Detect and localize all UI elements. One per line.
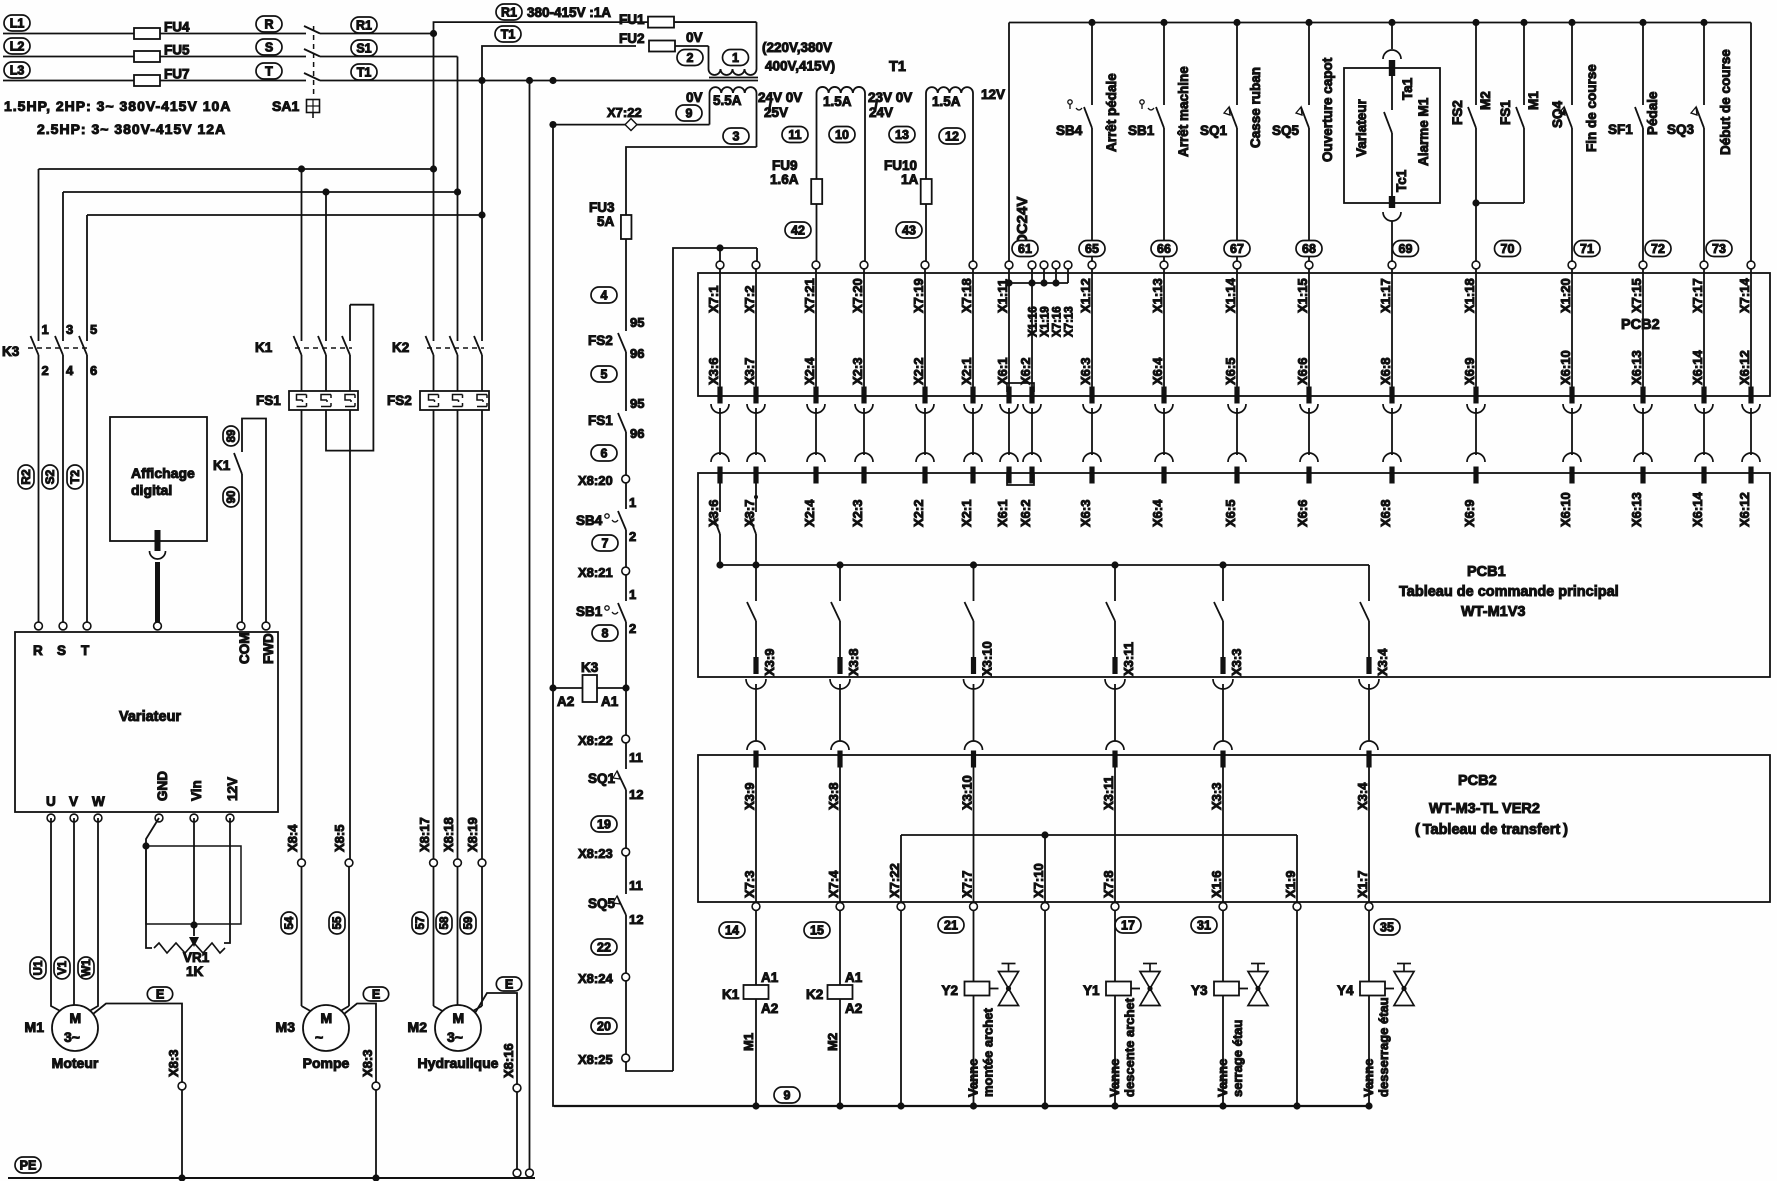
svg-text:Arrêt pédale: Arrêt pédale [1104, 73, 1119, 152]
svg-text:Vanne: Vanne [1215, 1059, 1230, 1097]
svg-text:desserrage étau: desserrage étau [1376, 997, 1391, 1097]
svg-text:X7:4: X7:4 [826, 870, 841, 898]
svg-text:X7:2: X7:2 [742, 286, 757, 313]
svg-text:X6:14: X6:14 [1690, 492, 1705, 527]
svg-text:M: M [70, 1010, 82, 1026]
svg-text:COM: COM [237, 633, 252, 665]
svg-text:Variateur: Variateur [1354, 98, 1369, 157]
svg-text:R: R [264, 17, 273, 31]
svg-text:12V: 12V [981, 87, 1005, 102]
svg-text:X3:7: X3:7 [742, 500, 757, 527]
svg-text:22: 22 [597, 940, 611, 954]
svg-text:FU2: FU2 [619, 31, 645, 46]
svg-text:X1:16: X1:16 [1028, 306, 1040, 337]
svg-text:58: 58 [439, 916, 451, 929]
svg-text:1.5A: 1.5A [823, 94, 852, 109]
svg-text:A1: A1 [601, 694, 619, 709]
svg-text:(220V,380V: (220V,380V [762, 40, 832, 55]
svg-text:X6:12: X6:12 [1737, 492, 1752, 527]
svg-text:V1: V1 [57, 960, 69, 975]
svg-text:FU1: FU1 [619, 12, 645, 27]
svg-text:R2: R2 [19, 469, 33, 485]
svg-text:11: 11 [788, 128, 801, 142]
svg-text:X7:21: X7:21 [802, 278, 817, 313]
svg-text:X8:22: X8:22 [578, 733, 613, 748]
svg-text:T1: T1 [889, 59, 906, 75]
svg-text:U: U [46, 794, 56, 809]
svg-text:X3:7: X3:7 [742, 358, 757, 385]
svg-text:SQ1: SQ1 [588, 771, 616, 786]
svg-text:X6:12: X6:12 [1737, 350, 1752, 385]
svg-text:FS2: FS2 [588, 333, 613, 348]
svg-text:Ouverture capot: Ouverture capot [1320, 57, 1335, 162]
svg-text:SB1: SB1 [576, 604, 603, 619]
svg-text:X2:3: X2:3 [850, 500, 865, 527]
svg-text:X7:7: X7:7 [960, 871, 975, 898]
svg-text:X1:15: X1:15 [1295, 278, 1310, 313]
svg-text:T: T [81, 643, 90, 658]
svg-text:K1: K1 [213, 458, 231, 473]
svg-text:T2: T2 [68, 470, 82, 484]
svg-text:X2:4: X2:4 [802, 499, 817, 527]
svg-text:E: E [156, 987, 164, 1001]
svg-text:PCB2: PCB2 [1458, 773, 1497, 789]
svg-text:2: 2 [629, 621, 636, 636]
svg-text:descente archet: descente archet [1122, 997, 1137, 1097]
svg-text:42: 42 [791, 223, 805, 237]
svg-text:X8:17: X8:17 [417, 817, 432, 852]
svg-text:FWD: FWD [261, 633, 276, 664]
svg-text:X7:18: X7:18 [959, 278, 974, 313]
svg-text:X2:2: X2:2 [911, 358, 926, 385]
svg-text:X7:10: X7:10 [1031, 863, 1046, 898]
svg-text:95: 95 [630, 315, 644, 330]
svg-text:X2:2: X2:2 [911, 500, 926, 527]
svg-text:X1:20: X1:20 [1558, 278, 1573, 313]
svg-text:X6:13: X6:13 [1629, 492, 1644, 527]
svg-text:15: 15 [810, 923, 824, 937]
svg-text:X3:11: X3:11 [1121, 642, 1136, 676]
svg-text:X6:4: X6:4 [1150, 357, 1165, 385]
svg-text:Y2: Y2 [942, 983, 959, 998]
svg-text:X7:1: X7:1 [706, 286, 721, 313]
svg-text:X2:4: X2:4 [802, 357, 817, 385]
svg-text:X7:8: X7:8 [1101, 871, 1116, 898]
svg-text:PCB1: PCB1 [1467, 564, 1506, 580]
svg-text:W: W [92, 794, 105, 809]
svg-text:X1:7: X1:7 [1355, 871, 1370, 898]
svg-text:X1:12: X1:12 [1078, 278, 1093, 313]
svg-text:WT-M3-TL VER2: WT-M3-TL VER2 [1429, 801, 1540, 817]
svg-text:X6:8: X6:8 [1378, 358, 1393, 385]
svg-text:X6:10: X6:10 [1558, 492, 1573, 527]
svg-text:95: 95 [630, 396, 644, 411]
svg-text:7: 7 [602, 536, 609, 550]
svg-text:72: 72 [1651, 242, 1665, 256]
svg-text:X2:1: X2:1 [959, 358, 974, 385]
svg-text:DC24V: DC24V [1014, 197, 1031, 245]
svg-text:Y1: Y1 [1083, 983, 1100, 998]
svg-text:1.5A: 1.5A [932, 94, 961, 109]
svg-text:70: 70 [1501, 242, 1515, 256]
svg-text:35: 35 [1380, 920, 1394, 934]
svg-text:T1: T1 [501, 27, 516, 41]
svg-text:X6:5: X6:5 [1223, 358, 1238, 385]
svg-text:X3:9: X3:9 [742, 783, 757, 810]
svg-text:R1: R1 [501, 5, 517, 19]
svg-text:M3: M3 [276, 1019, 296, 1035]
svg-text:M: M [321, 1010, 333, 1026]
svg-text:24V: 24V [869, 105, 893, 120]
svg-text:FS1: FS1 [1498, 100, 1513, 125]
svg-text:X6:14: X6:14 [1690, 350, 1705, 385]
svg-text:A1: A1 [761, 970, 779, 985]
svg-text:Arrêt machine: Arrêt machine [1176, 66, 1191, 157]
svg-text:400V,415V): 400V,415V) [765, 59, 835, 74]
svg-text:SQ1: SQ1 [1200, 123, 1228, 138]
svg-text:0V: 0V [686, 90, 703, 105]
svg-text:L2: L2 [10, 39, 25, 53]
svg-text:X7:22: X7:22 [887, 863, 902, 898]
svg-text:FU9: FU9 [772, 158, 798, 173]
svg-text:20: 20 [597, 1019, 611, 1033]
svg-text:PCB2: PCB2 [1621, 317, 1660, 333]
svg-text:X7:15: X7:15 [1629, 278, 1644, 313]
svg-text:Alarme M1: Alarme M1 [1416, 97, 1431, 166]
svg-text:FU3: FU3 [589, 200, 615, 215]
svg-text:FS1: FS1 [256, 393, 281, 408]
svg-text:55: 55 [332, 916, 344, 929]
svg-text:X8:16: X8:16 [501, 1043, 516, 1078]
svg-text:11: 11 [629, 878, 643, 893]
svg-text:X1:13: X1:13 [1150, 278, 1165, 313]
svg-text:FS2: FS2 [387, 393, 412, 408]
svg-text:X3:10: X3:10 [960, 775, 975, 810]
svg-text:X7:14: X7:14 [1737, 278, 1752, 313]
svg-text:61: 61 [1018, 242, 1032, 256]
svg-text:SA1: SA1 [272, 98, 299, 114]
svg-text:1: 1 [732, 51, 739, 65]
svg-text:X6:6: X6:6 [1295, 500, 1310, 527]
svg-text:8: 8 [602, 626, 609, 640]
svg-text:Hydraulique: Hydraulique [418, 1055, 499, 1071]
svg-text:X7:22: X7:22 [607, 105, 642, 120]
svg-text:X1:9: X1:9 [1283, 871, 1298, 898]
svg-text:6: 6 [601, 446, 608, 460]
svg-text:digital: digital [131, 482, 172, 498]
svg-text:59: 59 [463, 917, 475, 930]
svg-text:31: 31 [1197, 918, 1211, 932]
svg-text:M1: M1 [1526, 91, 1541, 110]
svg-text:X3:8: X3:8 [846, 649, 861, 676]
svg-text:X8:3: X8:3 [166, 1050, 181, 1077]
svg-text:6: 6 [90, 363, 97, 378]
svg-text:FS1: FS1 [588, 413, 613, 428]
svg-text:2: 2 [687, 51, 694, 65]
svg-text:Tableau de commande principal: Tableau de commande principal [1399, 584, 1619, 600]
svg-text:54: 54 [284, 916, 296, 929]
svg-text:Vanne: Vanne [966, 1059, 981, 1097]
svg-text:21: 21 [944, 918, 958, 932]
svg-text:X3:10: X3:10 [980, 641, 995, 676]
svg-text:X1:18: X1:18 [1462, 278, 1477, 313]
svg-text:380-415V :1A: 380-415V :1A [527, 5, 611, 20]
svg-text:SB4: SB4 [1056, 123, 1083, 138]
svg-text:K3: K3 [581, 660, 599, 675]
svg-text:25V: 25V [764, 105, 788, 120]
svg-text:5: 5 [90, 322, 97, 337]
svg-text:0V: 0V [686, 30, 703, 45]
svg-text:Variateur: Variateur [119, 709, 181, 725]
svg-text:X6:10: X6:10 [1558, 350, 1573, 385]
svg-text:X8:19: X8:19 [465, 817, 480, 852]
svg-text:X3:6: X3:6 [706, 500, 721, 527]
svg-text:VR1: VR1 [183, 950, 210, 965]
svg-text:K1: K1 [255, 340, 273, 355]
svg-text:X6:6: X6:6 [1295, 358, 1310, 385]
svg-text:X6:9: X6:9 [1462, 500, 1477, 527]
svg-text:1K: 1K [186, 964, 204, 979]
svg-text:96: 96 [630, 426, 644, 441]
svg-text:SB4: SB4 [576, 513, 603, 528]
svg-text:3~: 3~ [447, 1029, 463, 1045]
svg-text:3: 3 [66, 322, 73, 337]
svg-text:X1:6: X1:6 [1209, 871, 1224, 898]
svg-text:X6:13: X6:13 [1629, 350, 1644, 385]
svg-text:43: 43 [902, 223, 916, 237]
svg-text:12: 12 [629, 787, 643, 802]
svg-text:X3:11: X3:11 [1101, 776, 1116, 810]
svg-text:S: S [265, 40, 273, 54]
svg-text:X1:17: X1:17 [1378, 278, 1393, 313]
svg-text:S2: S2 [43, 469, 57, 484]
svg-text:Pompe: Pompe [303, 1055, 350, 1071]
svg-text:19: 19 [597, 817, 611, 831]
svg-text:24V 0V: 24V 0V [758, 90, 802, 105]
svg-text:T: T [265, 64, 273, 78]
svg-text:U1: U1 [33, 960, 45, 975]
svg-text:K2: K2 [806, 987, 823, 1002]
svg-text:1A: 1A [901, 172, 919, 187]
svg-text:X8:24: X8:24 [578, 971, 613, 986]
svg-text:X7:17: X7:17 [1690, 278, 1705, 313]
svg-text:1: 1 [629, 495, 636, 510]
svg-text:12: 12 [945, 129, 959, 143]
svg-text:K3: K3 [2, 344, 20, 359]
svg-text:X2:3: X2:3 [850, 358, 865, 385]
svg-text:SQ3: SQ3 [1667, 122, 1695, 137]
svg-text:73: 73 [1712, 242, 1726, 256]
svg-text:Vanne: Vanne [1361, 1059, 1376, 1097]
svg-text:V: V [69, 794, 78, 809]
svg-text:FS2: FS2 [1450, 100, 1465, 125]
svg-text:SQ5: SQ5 [588, 896, 616, 911]
svg-text:M1: M1 [25, 1019, 45, 1035]
svg-text:GND: GND [155, 771, 170, 801]
svg-text:X6:9: X6:9 [1462, 358, 1477, 385]
svg-text:5.5A: 5.5A [713, 93, 742, 108]
svg-text:X3:4: X3:4 [1355, 782, 1370, 810]
svg-text:X8:5: X8:5 [332, 825, 347, 852]
svg-text:~: ~ [315, 1029, 323, 1045]
svg-text:69: 69 [1399, 242, 1413, 256]
svg-text:3~: 3~ [64, 1029, 80, 1045]
svg-text:Pédale: Pédale [1645, 91, 1660, 135]
svg-text:14: 14 [725, 923, 739, 937]
svg-text:Vin: Vin [189, 780, 204, 801]
svg-text:L3: L3 [10, 63, 25, 77]
svg-text:M2: M2 [1478, 91, 1493, 110]
svg-text:12: 12 [629, 912, 643, 927]
svg-text:65: 65 [1085, 242, 1099, 256]
svg-text:FU5: FU5 [164, 43, 190, 58]
svg-text:2: 2 [42, 363, 49, 378]
svg-text:57: 57 [415, 917, 427, 930]
svg-text:X8:20: X8:20 [578, 473, 613, 488]
svg-text:X6:8: X6:8 [1378, 500, 1393, 527]
svg-text:W1: W1 [81, 959, 93, 977]
svg-text:12V: 12V [225, 777, 240, 801]
svg-text:T1: T1 [357, 65, 372, 79]
svg-text:X3:6: X3:6 [706, 358, 721, 385]
svg-text:E: E [505, 977, 513, 991]
svg-text:A2: A2 [761, 1001, 778, 1016]
svg-text:1: 1 [42, 322, 49, 337]
svg-text:Ta1: Ta1 [1400, 77, 1415, 100]
svg-text:X1:14: X1:14 [1223, 278, 1238, 313]
svg-text:X6:2: X6:2 [1018, 500, 1033, 527]
svg-text:X7:20: X7:20 [850, 278, 865, 313]
svg-text:X6:3: X6:3 [1078, 500, 1093, 527]
svg-text:X3:9: X3:9 [762, 649, 777, 676]
svg-text:X6:1: X6:1 [995, 358, 1010, 385]
svg-text:SF1: SF1 [1608, 122, 1633, 137]
svg-text:montée archet: montée archet [981, 1007, 996, 1097]
svg-text:9: 9 [686, 106, 693, 120]
svg-text:E: E [372, 987, 380, 1001]
svg-text:X8:23: X8:23 [578, 846, 613, 861]
svg-text:R1: R1 [356, 18, 372, 32]
svg-text:X1:19: X1:19 [1040, 306, 1052, 337]
svg-text:FU7: FU7 [164, 67, 190, 82]
svg-text:X6:5: X6:5 [1223, 500, 1238, 527]
svg-text:X6:2: X6:2 [1018, 358, 1033, 385]
svg-text:68: 68 [1302, 242, 1316, 256]
svg-text:1.6A: 1.6A [770, 172, 799, 187]
svg-text:( Tableau de transfert ): ( Tableau de transfert ) [1415, 822, 1568, 838]
svg-text:Affichage: Affichage [131, 465, 195, 481]
svg-text:FU10: FU10 [884, 158, 917, 173]
svg-text:X8:3: X8:3 [360, 1050, 375, 1077]
svg-text:X8:25: X8:25 [578, 1052, 613, 1067]
svg-text:PE: PE [20, 1158, 37, 1172]
svg-text:M2: M2 [825, 1033, 840, 1051]
svg-text:1: 1 [629, 587, 636, 602]
svg-text:9: 9 [784, 1088, 791, 1102]
svg-text:2.5HP: 3~ 380V-415V 12A: 2.5HP: 3~ 380V-415V 12A [37, 121, 226, 137]
svg-text:13: 13 [895, 128, 909, 142]
svg-text:S1: S1 [356, 41, 371, 55]
svg-text:66: 66 [1157, 242, 1171, 256]
svg-text:Fin de course: Fin de course [1584, 64, 1599, 152]
svg-text:SQ5: SQ5 [1272, 123, 1300, 138]
svg-text:M: M [453, 1010, 465, 1026]
svg-text:X3:8: X3:8 [826, 783, 841, 810]
svg-text:X3:3: X3:3 [1209, 783, 1224, 810]
svg-text:3: 3 [733, 129, 740, 143]
svg-text:Y4: Y4 [1337, 983, 1354, 998]
svg-text:X7:19: X7:19 [911, 278, 926, 313]
svg-text:X3:4: X3:4 [1375, 648, 1390, 676]
svg-text:67: 67 [1230, 242, 1244, 256]
svg-text:Tc1: Tc1 [1394, 169, 1409, 192]
svg-text:17: 17 [1121, 918, 1135, 932]
svg-text:M2: M2 [408, 1019, 428, 1035]
svg-text:X6:4: X6:4 [1150, 499, 1165, 527]
svg-text:X7:16: X7:16 [1052, 306, 1064, 337]
svg-text:WT-M1V3: WT-M1V3 [1461, 604, 1525, 620]
svg-text:1.5HP, 2HP: 3~ 380V-415: 1.5HP, 2HP: 3~ 380V-415V 10A [4, 98, 231, 114]
svg-text:X8:18: X8:18 [441, 817, 456, 852]
svg-text:K2: K2 [392, 340, 409, 355]
svg-text:A2: A2 [845, 1001, 862, 1016]
svg-text:A2: A2 [557, 694, 574, 709]
svg-text:X7:13: X7:13 [1064, 306, 1076, 337]
svg-text:2: 2 [629, 529, 636, 544]
svg-text:L1: L1 [10, 16, 25, 30]
svg-text:5A: 5A [597, 214, 615, 229]
svg-text:serrage étau: serrage étau [1230, 1020, 1245, 1097]
svg-text:5: 5 [601, 367, 608, 381]
svg-text:X2:1: X2:1 [959, 500, 974, 527]
svg-text:4: 4 [66, 363, 74, 378]
svg-text:R: R [33, 643, 43, 658]
svg-text:X8:21: X8:21 [578, 565, 613, 580]
svg-text:SB1: SB1 [1128, 123, 1155, 138]
svg-text:S: S [57, 643, 66, 658]
svg-text:Début de course: Début de course [1718, 49, 1733, 155]
svg-text:A1: A1 [845, 970, 863, 985]
svg-text:X3:3: X3:3 [1229, 649, 1244, 676]
svg-text:Casse ruban: Casse ruban [1248, 67, 1263, 148]
svg-text:89: 89 [226, 430, 238, 443]
svg-text:Y3: Y3 [1191, 983, 1208, 998]
svg-text:FU4: FU4 [164, 20, 190, 35]
svg-text:Vanne: Vanne [1107, 1059, 1122, 1097]
svg-text:71: 71 [1580, 242, 1594, 256]
svg-text:K1: K1 [722, 987, 740, 1002]
svg-text:Moteur: Moteur [52, 1055, 99, 1071]
svg-text:90: 90 [226, 491, 238, 504]
svg-text:4: 4 [601, 288, 608, 302]
svg-text:10: 10 [835, 128, 849, 142]
svg-text:X6:3: X6:3 [1078, 358, 1093, 385]
svg-text:M1: M1 [741, 1033, 756, 1051]
svg-text:X8:4: X8:4 [285, 824, 300, 852]
svg-text:X7:3: X7:3 [742, 871, 757, 898]
svg-text:X6:1: X6:1 [995, 500, 1010, 527]
svg-text:11: 11 [629, 750, 643, 765]
svg-text:SQ4: SQ4 [1550, 100, 1565, 128]
svg-text:96: 96 [630, 346, 644, 361]
